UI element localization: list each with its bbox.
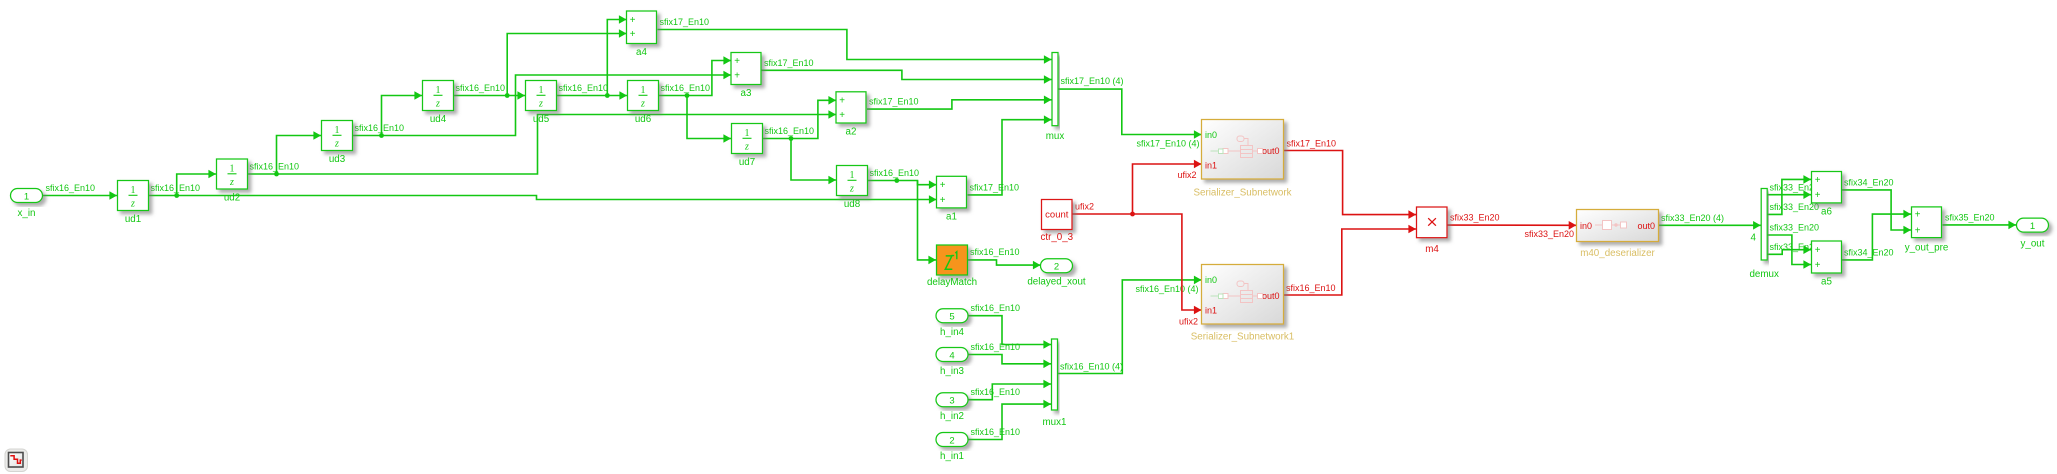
svg-text:ud2: ud2 xyxy=(224,193,240,204)
svg-text:sfix16_En10: sfix16_En10 xyxy=(46,183,96,193)
svg-text:+: + xyxy=(839,96,845,107)
unit delay ud5 xyxy=(526,81,557,126)
svg-text:out0: out0 xyxy=(1637,221,1655,231)
wire ud8 output to a1 in1 with branch to delayMatch xyxy=(868,168,937,264)
output port 2 delayed_xout xyxy=(1027,259,1086,288)
svg-text:ud5: ud5 xyxy=(533,114,550,125)
svg-text:+: + xyxy=(734,70,740,81)
wire ud1 output to a1 in2 with branch to ud2 xyxy=(149,170,937,204)
delay block delayMatch xyxy=(927,245,977,288)
subsystem Serializer_Subnetwork xyxy=(1193,120,1291,199)
unit delay ud4 xyxy=(423,81,454,126)
svg-text:a3: a3 xyxy=(741,88,752,99)
subsystem m40_deserializer xyxy=(1577,210,1659,260)
svg-text:sfix16_En10: sfix16_En10 xyxy=(355,123,405,133)
svg-text:1: 1 xyxy=(24,191,29,202)
wire m4 output to m40_deserializer in0, labels sfix33_En20 xyxy=(1448,213,1577,240)
wire a3 output to mux in2, label sfix17_En10 xyxy=(762,58,1052,84)
unit delay ud7 xyxy=(732,124,763,169)
svg-text:sfix33_En20: sfix33_En20 xyxy=(1525,229,1575,239)
svg-text:delayed_xout: delayed_xout xyxy=(1027,277,1086,288)
wire demux out3 to a5 in2, label sfix33_En20 xyxy=(1768,223,1820,269)
svg-text:sfix17_En10 (4): sfix17_En10 (4) xyxy=(1137,139,1200,149)
svg-text:ufix2: ufix2 xyxy=(1075,202,1094,212)
svg-text:sfix16_En10: sfix16_En10 xyxy=(250,162,300,172)
svg-text:demux: demux xyxy=(1749,269,1779,280)
svg-text:ud4: ud4 xyxy=(430,114,447,125)
wire ud4 output to ud5 with branch to a4 in2 xyxy=(454,29,627,100)
svg-text:1: 1 xyxy=(850,170,855,181)
unit delay ud3 xyxy=(322,121,353,166)
subsystem Serializer_Subnetwork1 xyxy=(1191,265,1294,343)
svg-text:a5: a5 xyxy=(1821,277,1832,288)
wire ud7 output to a2 in1 with branch to ud8 xyxy=(763,96,837,184)
wire h_in2 to mux1 in3, label sfix16_En10 xyxy=(968,380,1051,400)
demux xyxy=(1749,189,1779,281)
svg-text:2: 2 xyxy=(1054,262,1059,273)
sample time legend badge xyxy=(5,449,28,472)
unit delay ud2 xyxy=(217,159,248,204)
svg-text:sfix17_En10: sfix17_En10 xyxy=(764,58,814,68)
wire h_in4 to mux1 in1, label sfix16_En10 xyxy=(968,303,1051,349)
svg-text:in0: in0 xyxy=(1205,275,1217,285)
wire x_in to ud1, label sfix16_En10 xyxy=(43,183,118,200)
adder a4 xyxy=(627,11,657,58)
svg-text:+: + xyxy=(1915,210,1921,221)
svg-text:sfix17_En10: sfix17_En10 xyxy=(869,97,919,107)
svg-text:1: 1 xyxy=(436,85,441,96)
wire a5 output to y_out_pre in1, label sfix34_En20 xyxy=(1842,210,1911,260)
svg-text:sfix16_En10 (4): sfix16_En10 (4) xyxy=(1136,284,1199,294)
svg-text:ud6: ud6 xyxy=(635,114,652,125)
adder a3 xyxy=(731,53,761,100)
svg-text:3: 3 xyxy=(949,396,954,407)
svg-text:z: z xyxy=(744,142,749,153)
svg-text:m40_deserializer: m40_deserializer xyxy=(1580,248,1655,259)
svg-text:out0: out0 xyxy=(1262,146,1280,156)
wire a6 output to y_out_pre in2, label sfix34_En20 xyxy=(1842,177,1911,234)
svg-text:delayMatch: delayMatch xyxy=(927,277,977,288)
svg-text:sfix17_En10: sfix17_En10 xyxy=(970,182,1020,192)
svg-text:+: + xyxy=(734,56,740,67)
adder a1 xyxy=(937,176,967,222)
svg-text:z: z xyxy=(334,139,339,150)
wire ud5 output to ud6 with branch to a4 in1 xyxy=(557,15,628,100)
svg-text:in0: in0 xyxy=(1580,221,1592,231)
svg-text:h_in1: h_in1 xyxy=(940,451,964,462)
svg-text:1: 1 xyxy=(641,85,646,96)
unit delay ud1 xyxy=(118,181,149,226)
mux1 xyxy=(1043,339,1067,428)
input port 3 h_in2 xyxy=(936,393,968,422)
svg-text:sfix16_En10: sfix16_En10 xyxy=(456,83,506,93)
svg-text:out0: out0 xyxy=(1262,291,1280,301)
svg-text:sfix16_En10: sfix16_En10 xyxy=(765,126,815,136)
svg-text:4: 4 xyxy=(949,350,954,361)
svg-text:+: + xyxy=(839,110,845,121)
svg-text:Serializer_Subnetwork: Serializer_Subnetwork xyxy=(1193,188,1291,199)
svg-text:sfix16_En10: sfix16_En10 xyxy=(970,247,1020,257)
svg-text:h_in3: h_in3 xyxy=(940,366,965,377)
wire h_in1 to mux1 in4, label sfix16_En10 xyxy=(968,400,1051,440)
wire a4 output to mux in1, label sfix17_En10 xyxy=(658,17,1052,64)
svg-text:4: 4 xyxy=(1751,233,1757,244)
input port 5 h_in4 xyxy=(936,309,968,338)
svg-text:h_in2: h_in2 xyxy=(940,411,964,422)
svg-text:sfix17_En10: sfix17_En10 xyxy=(1287,139,1337,149)
wire h_in3 to mux1 in2, label sfix16_En10 xyxy=(968,342,1051,368)
svg-text:ufix2: ufix2 xyxy=(1179,317,1198,327)
svg-text:+: + xyxy=(940,195,946,206)
wire ud2 output to a2 in2 with branch to ud3 xyxy=(248,110,837,176)
svg-text:sfix34_En20: sfix34_En20 xyxy=(1844,247,1894,257)
wire ctr_0_3 count output to Serializer in1 and Serializer1 in1, labels ufix2 xyxy=(1072,160,1202,327)
svg-text:ufix2: ufix2 xyxy=(1178,170,1197,180)
adder y_out_pre xyxy=(1905,207,1949,254)
svg-text:a4: a4 xyxy=(636,47,647,58)
svg-text:sfix35_En20: sfix35_En20 xyxy=(1945,212,1995,222)
svg-text:sfix33_En20 (4): sfix33_En20 (4) xyxy=(1661,213,1724,223)
svg-text:ud1: ud1 xyxy=(125,214,141,225)
svg-text:+: + xyxy=(630,15,636,26)
svg-text:z: z xyxy=(229,177,234,188)
input port 1 x_in xyxy=(11,189,43,220)
wire y_out_pre output to y_out port, label sfix35_En20 xyxy=(1943,212,2017,229)
svg-text:sfix17_En10 (4): sfix17_En10 (4) xyxy=(1061,76,1124,86)
svg-text:+: + xyxy=(1815,245,1821,256)
svg-text:sfix16_En10: sfix16_En10 xyxy=(971,427,1021,437)
mux xyxy=(1046,53,1065,143)
svg-text:ud8: ud8 xyxy=(844,199,861,210)
wire m40_deserializer output to demux, label sfix33_En20 (4) and port count 4 xyxy=(1659,213,1761,244)
svg-text:in1: in1 xyxy=(1205,306,1217,316)
svg-text:sfix16_En10 (4): sfix16_En10 (4) xyxy=(1060,362,1123,372)
wire demux out4 to a5 in1, label sfix33_En20 xyxy=(1768,242,1820,254)
svg-text:sfix16_En10: sfix16_En10 xyxy=(971,342,1021,352)
svg-text:sfix16_En10: sfix16_En10 xyxy=(1286,283,1336,293)
svg-text:sfix33_En20: sfix33_En20 xyxy=(1770,223,1820,233)
adder a5 xyxy=(1812,241,1842,288)
svg-text:1: 1 xyxy=(131,185,136,196)
svg-text:m4: m4 xyxy=(1425,244,1439,255)
svg-text:1: 1 xyxy=(230,164,235,175)
svg-text:1: 1 xyxy=(745,128,750,139)
svg-text:sfix16_En10: sfix16_En10 xyxy=(870,168,920,178)
svg-text:+: + xyxy=(630,29,636,40)
input port 2 h_in1 xyxy=(936,433,968,462)
wire delayMatch output to delayed_xout port, label sfix16_En10 xyxy=(968,247,1041,269)
wire demux out1 to a6 in2, label sfix33_En20 xyxy=(1768,183,1820,199)
svg-text:sfix16_En10: sfix16_En10 xyxy=(661,83,711,93)
svg-text:+: + xyxy=(1815,260,1821,271)
svg-text:sfix33_En20: sfix33_En20 xyxy=(1450,213,1500,223)
svg-text:in0: in0 xyxy=(1205,130,1217,140)
svg-text:a6: a6 xyxy=(1821,206,1832,217)
wire ud6 output to a3 in1 with branch to ud7 xyxy=(659,56,732,143)
svg-text:+: + xyxy=(940,180,946,191)
svg-text:2: 2 xyxy=(949,435,954,446)
wire ud3 output to a3 in2 with branch to ud4 xyxy=(353,71,732,138)
unit delay ud8 xyxy=(837,166,868,211)
svg-text:sfix16_En10: sfix16_En10 xyxy=(971,387,1021,397)
svg-text:mux1: mux1 xyxy=(1043,417,1067,428)
svg-text:z: z xyxy=(130,199,135,210)
svg-text:ud3: ud3 xyxy=(329,154,346,165)
svg-text:sfix16_En10: sfix16_En10 xyxy=(971,303,1021,313)
svg-text:z: z xyxy=(849,184,854,195)
unit delay ud6 xyxy=(628,81,659,126)
svg-text:Serializer_Subnetwork1: Serializer_Subnetwork1 xyxy=(1191,332,1294,343)
svg-text:a2: a2 xyxy=(846,127,857,138)
svg-text:+: + xyxy=(1815,190,1821,201)
svg-text:in1: in1 xyxy=(1205,161,1217,171)
adder a2 xyxy=(836,92,866,138)
svg-text:1: 1 xyxy=(539,85,544,96)
wire demux out2 to a6 in1, label sfix33_En20 xyxy=(1768,175,1820,214)
svg-text:y_out: y_out xyxy=(2021,239,2045,250)
wire Serializer_Subnetwork out0 to m4 in1, label sfix17_En10 xyxy=(1284,139,1416,219)
wire mux output to Serializer_Subnetwork in0, labels sfix17_En10 (4) xyxy=(1058,76,1202,149)
svg-text:5: 5 xyxy=(949,312,954,323)
svg-text:z: z xyxy=(640,99,645,110)
wire Serializer_Subnetwork1 out0 to m4 in2, label sfix16_En10 xyxy=(1284,225,1417,295)
svg-text:1: 1 xyxy=(2030,221,2035,232)
svg-text:sfix16_En10: sfix16_En10 xyxy=(151,183,201,193)
svg-text:sfix16_En10: sfix16_En10 xyxy=(559,83,609,93)
svg-text:mux: mux xyxy=(1046,131,1065,142)
multiplier m4 xyxy=(1417,207,1448,255)
wire mux1 output to Serializer_Subnetwork1 in0, labels sfix16_En10 (4) xyxy=(1058,276,1202,374)
svg-text:x_in: x_in xyxy=(18,208,36,219)
svg-text:sfix17_En10: sfix17_En10 xyxy=(660,17,710,27)
output port 1 y_out xyxy=(2017,218,2049,249)
adder a6 xyxy=(1812,172,1842,218)
wire a2 output to mux in3, label sfix17_En10 xyxy=(867,96,1052,110)
svg-text:sfix34_En20: sfix34_En20 xyxy=(1844,177,1894,187)
svg-text:+: + xyxy=(1915,225,1921,236)
svg-text:ctr_0_3: ctr_0_3 xyxy=(1040,232,1073,243)
svg-text:ud7: ud7 xyxy=(739,157,755,168)
svg-text:count: count xyxy=(1045,210,1069,221)
svg-text:z: z xyxy=(538,99,543,110)
svg-text:1: 1 xyxy=(335,125,340,136)
svg-text:a1: a1 xyxy=(946,211,957,222)
svg-text:h_in4: h_in4 xyxy=(940,327,965,338)
svg-text:z: z xyxy=(435,99,440,110)
input port 4 h_in3 xyxy=(936,348,968,377)
svg-text:+: + xyxy=(1815,175,1821,186)
counter block ctr_0_3 xyxy=(1040,200,1073,244)
svg-text:y_out_pre: y_out_pre xyxy=(1905,243,1949,254)
wire a1 output to mux in4, label sfix17_En10 xyxy=(968,115,1052,194)
